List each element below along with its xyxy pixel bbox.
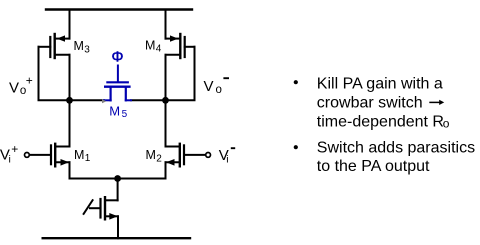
wire Mtail source down bbox=[117, 216, 119, 238]
transistor M4 gate lead bbox=[185, 46, 195, 48]
svg-text:to the PA output: to the PA output bbox=[317, 158, 430, 175]
transistor M1 gate wire bbox=[29, 154, 51, 156]
transistor M3 drain lead bbox=[55, 54, 70, 56]
transistor M2 source arrow bbox=[166, 159, 175, 166]
svg-text:Φ: Φ bbox=[112, 49, 124, 66]
wire M3 gate feedback bbox=[39, 47, 70, 101]
bottom ground rail bbox=[43, 237, 190, 239]
transistor M1 channel bbox=[54, 144, 56, 167]
bullet 2 bbox=[294, 145, 298, 149]
transistor M2 channel bbox=[179, 144, 181, 167]
wire tail down bbox=[117, 179, 119, 201]
svg-text:Kill PA gain with a: Kill PA gain with a bbox=[317, 75, 443, 92]
svg-text:time-dependent R: time-dependent R bbox=[317, 114, 444, 131]
svg-text:crowbar switch: crowbar switch bbox=[317, 94, 423, 111]
wire M5 right to node B bbox=[131, 99, 166, 101]
input port circle Vi+ bbox=[25, 153, 30, 158]
svg-text:4: 4 bbox=[156, 44, 162, 55]
wire M4 gate feedback bbox=[166, 47, 195, 101]
node B junction dot bbox=[162, 97, 169, 104]
transistor M1 drain lead bbox=[55, 146, 69, 148]
svg-text:M: M bbox=[146, 148, 156, 162]
svg-text:V: V bbox=[204, 78, 214, 95]
svg-text:1: 1 bbox=[85, 153, 91, 164]
transistor M2 source lead bbox=[166, 161, 180, 163]
transistor M1 source arrow bbox=[61, 159, 70, 166]
wire left bus lower bbox=[69, 55, 71, 147]
svg-text:o: o bbox=[216, 84, 222, 96]
transistor Mtail drain lead bbox=[105, 199, 118, 201]
transistor M3 channel bbox=[54, 34, 56, 58]
transistor M4 source arrow bbox=[170, 35, 178, 41]
svg-text:V: V bbox=[9, 80, 19, 97]
svg-text:5: 5 bbox=[122, 109, 128, 120]
transistor M3 gate lead bbox=[39, 46, 51, 48]
node A junction dot bbox=[66, 97, 73, 104]
svg-text:+: + bbox=[11, 142, 18, 156]
svg-text:2: 2 bbox=[156, 153, 162, 164]
M5 substrate arrow mark bbox=[102, 99, 107, 103]
transistor M4 drain lead bbox=[166, 54, 181, 56]
wire tail node horizontal bbox=[70, 178, 166, 180]
transistor M3 gate bar bbox=[49, 37, 51, 57]
transistor M1 gate bar bbox=[50, 145, 52, 164]
wire left bus upper bbox=[69, 10, 71, 39]
svg-text:o: o bbox=[443, 117, 450, 131]
svg-text:M: M bbox=[109, 104, 120, 119]
wire right bus lower bbox=[165, 55, 167, 147]
wire M2 source down bbox=[165, 162, 167, 178]
transistor M4 channel bbox=[179, 34, 181, 58]
transistor M2 gate bar bbox=[183, 145, 185, 164]
bias input slash bbox=[84, 200, 93, 214]
top supply rail bbox=[46, 8, 192, 10]
transistor M3 source arrow bbox=[57, 35, 65, 41]
transistor M4 source lead bbox=[166, 38, 179, 40]
transistor M3 source lead bbox=[57, 38, 70, 40]
right-arrow glyph after "crowbar switch" bbox=[429, 101, 440, 103]
transistor M5 (blue crowbar switch) bbox=[104, 66, 131, 101]
input port circle Vi- bbox=[206, 153, 211, 158]
svg-text:Switch adds parasitics: Switch adds parasitics bbox=[317, 140, 475, 157]
svg-text:M: M bbox=[145, 38, 155, 52]
transistor Mtail channel bbox=[104, 197, 106, 219]
transistor M1 source lead bbox=[55, 161, 69, 163]
svg-text:M: M bbox=[74, 148, 84, 162]
wire right bus upper bbox=[165, 10, 167, 39]
svg-text:i: i bbox=[226, 153, 228, 165]
bullet 1 bbox=[294, 80, 298, 84]
transistor M2 drain lead bbox=[166, 146, 180, 148]
svg-text:M: M bbox=[74, 39, 84, 53]
wire node A to M5 left bbox=[70, 99, 105, 101]
transistor M2 gate wire bbox=[184, 154, 206, 156]
transistor Mtail gate bar bbox=[99, 199, 101, 218]
wire M1 source down bbox=[69, 162, 71, 178]
svg-text:+: + bbox=[26, 74, 33, 88]
transistor Mtail source lead bbox=[105, 215, 118, 217]
svg-text:3: 3 bbox=[84, 44, 90, 55]
tail node junction dot bbox=[114, 175, 121, 182]
transistor M4 gate bar bbox=[184, 37, 186, 57]
transistor Mtail source arrow bbox=[109, 213, 118, 220]
transistor Mtail gate lead bbox=[90, 207, 101, 209]
